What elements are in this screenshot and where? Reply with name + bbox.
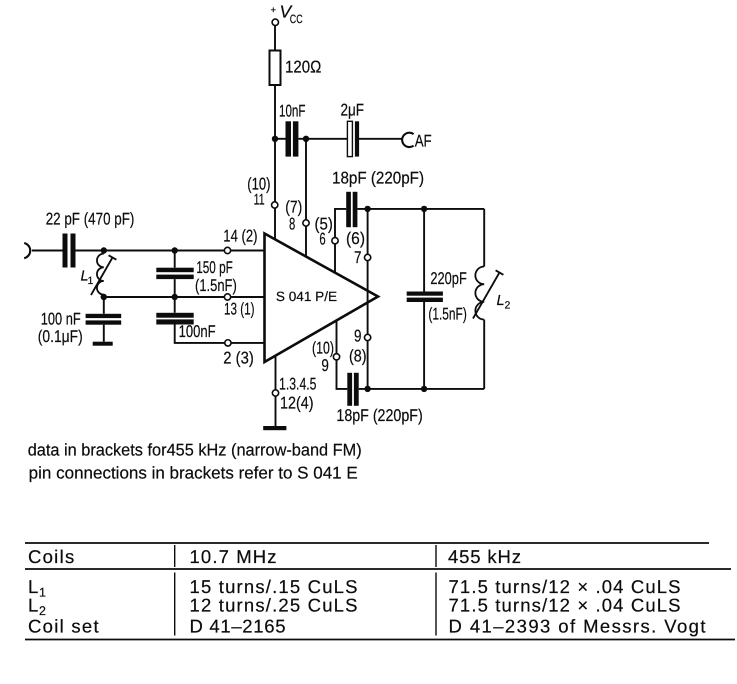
- node junction I: [364, 386, 370, 392]
- node junction D: [172, 247, 178, 253]
- capacitor 2uF: [347, 121, 359, 156]
- pin 9 wire left: [337, 320, 348, 389]
- svg-text:data in brackets for455 kHz (n: data in brackets for455 kHz (narrow-band…: [28, 441, 362, 460]
- wire 22pF to pin 14: [76, 250, 265, 252]
- svg-text:100 nF: 100 nF: [41, 310, 81, 329]
- pin 6 wire: [335, 209, 346, 273]
- capacitor 10nF: [286, 121, 299, 156]
- svg-text:455 kHz: 455 kHz: [448, 546, 521, 567]
- wire R1 to pin 11: [274, 85, 276, 240]
- svg-text:+: +: [271, 5, 277, 16]
- svg-text:9: 9: [354, 327, 362, 346]
- svg-text:(6): (6): [346, 229, 365, 248]
- inductor L2 wire top: [483, 209, 485, 267]
- pin 7 circle: [364, 254, 370, 260]
- inductor L2: [475, 267, 484, 320]
- svg-text:13 (1): 13 (1): [224, 300, 255, 319]
- wire 100nF to pin 2: [175, 325, 265, 343]
- node junction C: [101, 247, 107, 253]
- node junction B: [303, 136, 309, 142]
- ground 2: [263, 426, 286, 430]
- wire middle row pin 13: [104, 296, 265, 298]
- wire 10nF to 2uF: [298, 138, 347, 140]
- node junction H: [421, 206, 427, 212]
- table top rule: [25, 542, 709, 544]
- pin 6 circle: [332, 238, 338, 244]
- capacitor 18pF top: [346, 192, 357, 227]
- svg-text:(1.5nF): (1.5nF): [195, 276, 237, 295]
- pin 14 circle: [224, 247, 230, 253]
- capacitor 220pF: [407, 292, 443, 303]
- pin 7 and 9 wire: [367, 209, 369, 389]
- table separator header 2: [435, 545, 437, 567]
- node junction A: [272, 136, 278, 142]
- capacitor 100nF (0.1uF): [86, 314, 122, 325]
- svg-text:12(4): 12(4): [280, 394, 314, 413]
- svg-text:L: L: [28, 595, 38, 616]
- table separator body 2: [435, 573, 437, 636]
- svg-text:(8): (8): [349, 347, 367, 366]
- wire Vcc to R1: [274, 26, 276, 51]
- svg-text:11: 11: [254, 192, 265, 209]
- wire 150pF to node F: [174, 279, 176, 297]
- svg-text:150 pF: 150 pF: [196, 258, 233, 277]
- capacitor 150pF: [156, 268, 193, 279]
- svg-text:22 pF (470 pF): 22 pF (470 pF): [46, 210, 135, 229]
- table middle rule: [25, 568, 731, 570]
- svg-text:(1.5nF): (1.5nF): [428, 305, 466, 324]
- svg-text:71.5 turns/12 × .04 CuLS: 71.5 turns/12 × .04 CuLS: [449, 595, 681, 616]
- svg-text:CC: CC: [290, 12, 303, 26]
- svg-text:L: L: [497, 293, 505, 309]
- input terminal arc: [24, 243, 30, 258]
- table rules: [25, 543, 735, 640]
- svg-text:D 41–2393 of Messrs. Vogt: D 41–2393 of Messrs. Vogt: [449, 616, 706, 637]
- svg-text:(10): (10): [312, 339, 334, 358]
- svg-text:120Ω: 120Ω: [285, 58, 321, 77]
- pin 12 wire: [275, 356, 277, 426]
- wire node A to C 10nF: [275, 138, 286, 140]
- svg-text:6: 6: [319, 230, 325, 249]
- L1 tuning arrow: [91, 258, 113, 296]
- wire input to C 22pF: [32, 250, 63, 252]
- svg-text:pin connections in brackets re: pin connections in brackets refer to S 0…: [29, 464, 358, 483]
- svg-text:18pF (220pF): 18pF (220pF): [332, 169, 424, 188]
- wire node E to C 100nF bypass: [103, 297, 105, 314]
- wire 100nF to ground: [103, 325, 105, 342]
- Vcc terminal: [272, 19, 278, 25]
- op-amp U1 S041: [265, 234, 379, 363]
- svg-text:100nF: 100nF: [179, 322, 216, 341]
- inductor L1: [97, 254, 104, 295]
- wire node B to pin 8: [305, 139, 307, 257]
- node junction E: [101, 294, 107, 300]
- pin 2 circle: [225, 340, 231, 346]
- pin 13 circle: [224, 294, 230, 300]
- svg-text:1.3.4.5: 1.3.4.5: [279, 375, 317, 394]
- svg-text:Coils: Coils: [28, 546, 74, 567]
- node junction F: [172, 294, 178, 300]
- table separator body 1: [174, 573, 176, 636]
- svg-text:2μF: 2μF: [341, 101, 365, 120]
- svg-text:S 041 P/E: S 041 P/E: [276, 289, 337, 304]
- wire 220pF top: [423, 209, 425, 292]
- pin 12 circle: [272, 390, 278, 396]
- svg-text:10nF: 10nF: [279, 101, 306, 120]
- svg-text:Coil set: Coil set: [28, 616, 99, 637]
- svg-text:14 (2): 14 (2): [223, 227, 257, 246]
- resistor 120ohm: [270, 51, 281, 86]
- svg-text:7: 7: [354, 248, 362, 267]
- svg-text:220pF: 220pF: [430, 269, 466, 288]
- AF terminal arc: [402, 133, 413, 147]
- svg-text:(0.1μF): (0.1μF): [38, 327, 83, 346]
- wire node F to C 100nF coupling: [174, 297, 176, 313]
- wire 2uF to AF terminal: [359, 138, 403, 140]
- capacitor 22pF: [63, 234, 76, 268]
- node junction J: [421, 386, 427, 392]
- svg-text:AF: AF: [415, 131, 432, 150]
- svg-text:2 (3): 2 (3): [223, 348, 254, 367]
- L2 tuning arrow: [473, 273, 500, 319]
- wire node D to C 150pF: [174, 251, 176, 268]
- pin 11 circle: [272, 202, 278, 208]
- table separator header 1: [174, 545, 176, 567]
- pin 9 circle left: [333, 354, 339, 360]
- wire 18pF to L2 top: [357, 208, 484, 210]
- wire bottom to L2: [359, 388, 485, 390]
- svg-text:18pF (220pF): 18pF (220pF): [336, 406, 422, 425]
- table bottom rule: [25, 639, 735, 641]
- svg-text:9: 9: [321, 356, 329, 375]
- svg-text:12 turns/.25 CuLS: 12 turns/.25 CuLS: [190, 595, 358, 616]
- inductor L2 wire bottom: [483, 320, 485, 389]
- svg-text:1: 1: [39, 586, 46, 600]
- svg-text:8: 8: [289, 215, 295, 234]
- svg-text:2: 2: [505, 300, 511, 312]
- pin 9 circle right: [364, 334, 370, 340]
- capacitor 18pF bottom: [347, 373, 358, 406]
- ground 1: [93, 342, 113, 346]
- svg-text:1: 1: [88, 275, 94, 287]
- capacitor 100nF coupling: [156, 313, 193, 325]
- svg-text:D 41–2165: D 41–2165: [190, 616, 286, 637]
- svg-text:10.7 MHz: 10.7 MHz: [190, 546, 277, 567]
- wire 220pF bottom: [423, 302, 425, 389]
- node junction G: [364, 206, 370, 212]
- pin 8 circle: [303, 220, 309, 226]
